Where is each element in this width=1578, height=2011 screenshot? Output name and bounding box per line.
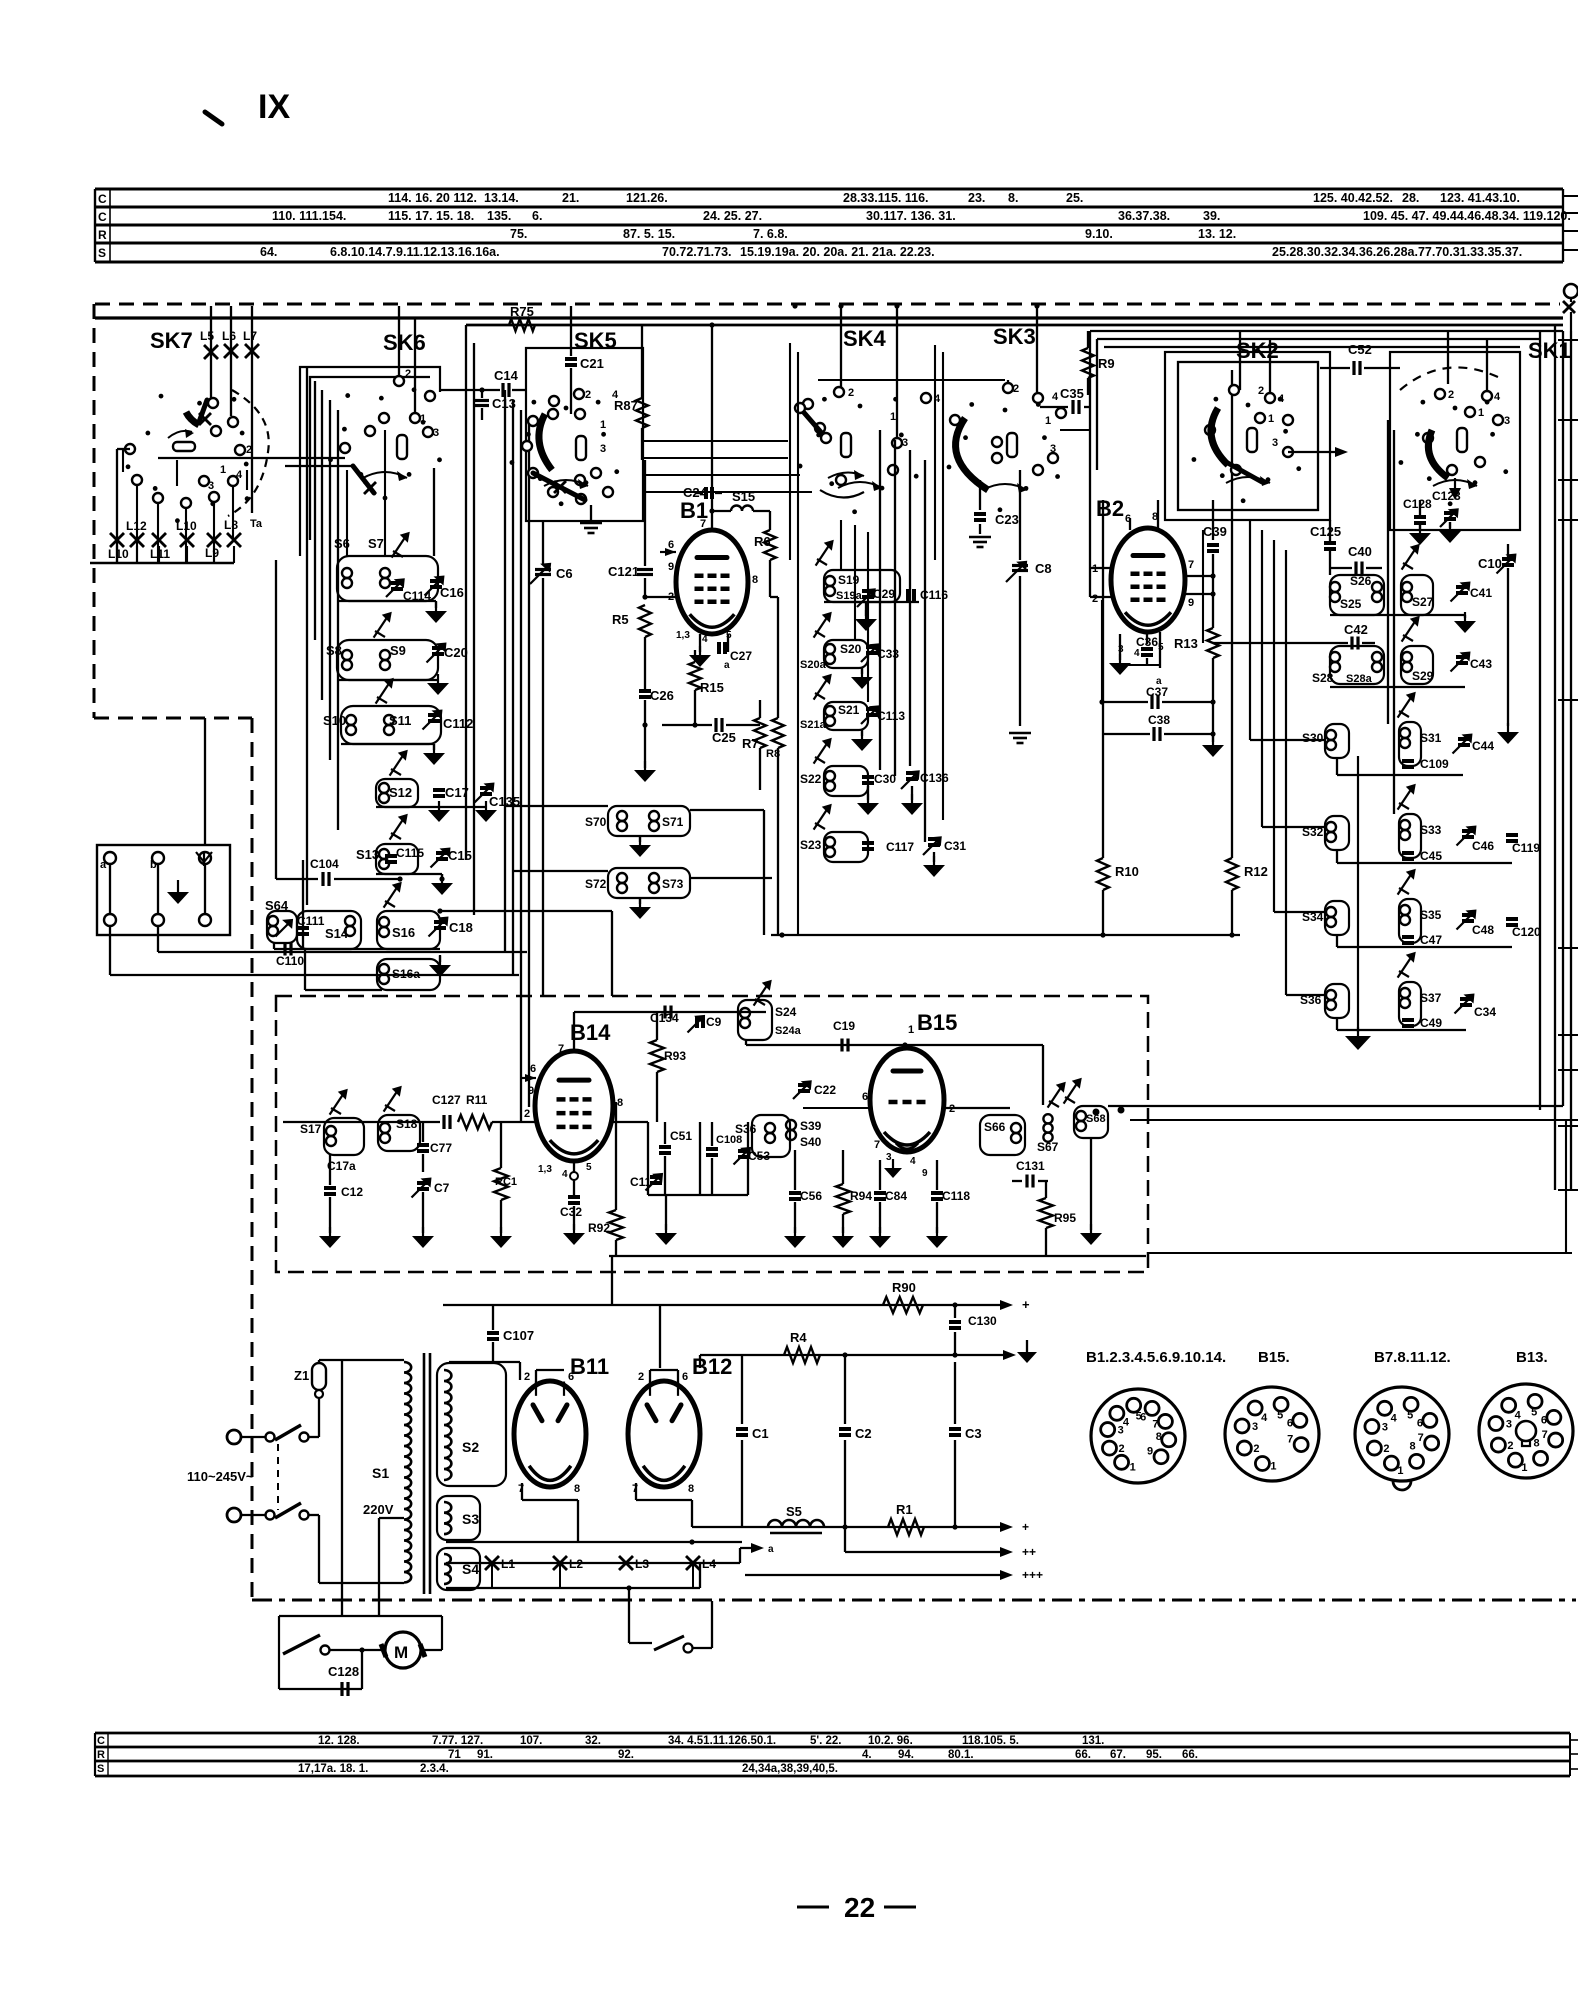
ground R94 <box>842 1227 844 1236</box>
svg-text:1: 1 <box>600 419 606 431</box>
wire SK7 to SK6 row2 <box>285 465 353 467</box>
wire B2 pin9 row <box>1185 593 1213 595</box>
svg-text:C25: C25 <box>712 730 736 745</box>
svg-text:Z1: Z1 <box>294 1368 309 1383</box>
svg-text:1: 1 <box>1268 413 1274 425</box>
svg-text:36.37.38.: 36.37.38. <box>1118 209 1170 223</box>
earth below C8 <box>1009 732 1031 735</box>
svg-text:S67: S67 <box>1037 1140 1059 1154</box>
svg-text:S73: S73 <box>662 877 684 891</box>
svg-text:110. 111.154.: 110. 111.154. <box>272 209 346 223</box>
wire S13 bottom <box>376 873 442 875</box>
svg-text:C22: C22 <box>814 1083 836 1097</box>
svg-text:B7.8.11.12.: B7.8.11.12. <box>1374 1349 1451 1366</box>
svg-text:S72: S72 <box>585 877 607 891</box>
svg-text:3: 3 <box>1252 1421 1258 1433</box>
svg-text:C130: C130 <box>968 1314 997 1328</box>
coil S67 <box>1043 1114 1052 1123</box>
wire HT bus R90 <box>612 1304 1005 1306</box>
svg-text:C128: C128 <box>328 1664 359 1679</box>
dashed enclosure jog <box>94 717 252 720</box>
coil S34 block <box>1325 901 1349 935</box>
page number <box>797 1906 829 1909</box>
earth below C23 <box>979 524 981 534</box>
svg-text:25.: 25. <box>1066 191 1083 205</box>
capacitor C119 <box>1506 833 1518 837</box>
svg-text:2: 2 <box>1258 385 1264 397</box>
capacitor C31 <box>923 838 940 855</box>
coil X symbols row <box>110 533 124 547</box>
wire S64 bottom <box>273 943 275 949</box>
switch SK7 arrow <box>168 431 192 438</box>
svg-text:7: 7 <box>1418 1432 1424 1444</box>
capacitor C20 <box>427 645 445 663</box>
coil S6 S7 block <box>337 556 438 601</box>
svg-text:1: 1 <box>220 464 226 476</box>
svg-text:1: 1 <box>1521 1462 1527 1474</box>
svg-text:B1.2.3.4.5.6.9.10.14.: B1.2.3.4.5.6.9.10.14. <box>1086 1349 1226 1366</box>
svg-text:S36: S36 <box>735 1122 757 1136</box>
adjust arrow S19 <box>816 543 831 566</box>
wire SK7 contact drops <box>136 486 138 563</box>
svg-text:123. 41.43.10.: 123. 41.43.10. <box>1440 191 1520 205</box>
mains switch arm 1 <box>275 1425 301 1440</box>
svg-text:RC1: RC1 <box>495 1176 517 1188</box>
svg-text:1: 1 <box>1045 415 1051 427</box>
svg-text:L9: L9 <box>205 546 219 560</box>
wire to S72 <box>513 870 608 872</box>
coil S35 block <box>1399 899 1421 943</box>
capacitor C44 <box>1453 736 1471 754</box>
resistor R92 <box>609 1210 623 1240</box>
coil S29 block <box>1401 646 1433 684</box>
wire SK4 top leads <box>840 306 842 388</box>
tube B15 <box>870 1048 944 1152</box>
svg-text:C115: C115 <box>396 846 424 860</box>
svg-text:9: 9 <box>922 1168 928 1179</box>
svg-text:3: 3 <box>1506 1419 1512 1431</box>
svg-text:S19a: S19a <box>836 590 863 602</box>
svg-text:C31: C31 <box>944 839 966 853</box>
svg-text:114. 16. 20 112.: 114. 16. 20 112. <box>388 191 477 205</box>
wire B15 pin1 <box>904 1045 906 1048</box>
svg-text:S9: S9 <box>390 643 406 658</box>
capacitor C107 <box>492 1305 494 1330</box>
capacitor C2 <box>844 1355 846 1424</box>
capacitor C17 <box>433 788 445 792</box>
svg-text:109. 45. 47. 49.44.46.48.34. 1: 109. 45. 47. 49.44.46.48.34. 119.120. <box>1363 209 1571 223</box>
svg-text:L10: L10 <box>176 519 197 533</box>
wire HT bus 2 <box>700 1354 1010 1356</box>
wire B14 pin7 lead <box>573 1012 575 1052</box>
switch SK7 slot <box>173 442 195 451</box>
svg-text:S1: S1 <box>372 1465 389 1481</box>
svg-text:67.: 67. <box>1110 1749 1126 1761</box>
svg-text:9: 9 <box>1147 1446 1153 1458</box>
svg-text:L4: L4 <box>702 1557 716 1571</box>
wire B2 left leads <box>1090 567 1111 569</box>
svg-text:L1: L1 <box>501 1557 515 1571</box>
svg-text:7.77. 127.: 7.77. 127. <box>432 1735 483 1747</box>
adjust arrow S12 <box>390 753 405 776</box>
svg-text:C8: C8 <box>1035 561 1052 576</box>
capacitor C32 <box>568 1195 580 1199</box>
svg-text:4: 4 <box>1494 391 1501 403</box>
svg-text:C: C <box>98 192 107 206</box>
svg-text:C52: C52 <box>1348 342 1372 357</box>
svg-text:B15: B15 <box>917 1010 957 1035</box>
svg-text:R7: R7 <box>742 736 759 751</box>
svg-text:C34: C34 <box>1474 1005 1496 1019</box>
svg-text:2: 2 <box>405 368 411 380</box>
svg-text:L5: L5 <box>200 329 214 343</box>
motor switch arm <box>283 1635 320 1654</box>
svg-text:C3: C3 <box>965 1426 982 1441</box>
svg-text:S28a: S28a <box>1346 673 1373 685</box>
wire S40 to B15 <box>803 1107 870 1109</box>
svg-text:C23: C23 <box>995 512 1019 527</box>
coil S66 block <box>980 1115 1025 1155</box>
svg-text:5: 5 <box>1277 1409 1283 1421</box>
svg-text:R13: R13 <box>1174 636 1198 651</box>
svg-text:2.3.4.: 2.3.4. <box>420 1763 449 1775</box>
svg-text:S16: S16 <box>392 925 415 940</box>
svg-text:S25: S25 <box>1340 597 1362 611</box>
wire chain feed S36 <box>1285 550 1287 995</box>
svg-text:121.26.: 121.26. <box>626 191 668 205</box>
ground S18 <box>422 1227 424 1236</box>
svg-text:S26: S26 <box>1350 574 1372 588</box>
svg-text:S22: S22 <box>800 772 822 786</box>
svg-text:C51: C51 <box>670 1129 692 1143</box>
switch SK1 frame <box>1390 352 1520 530</box>
ground S13 <box>441 874 443 880</box>
capacitor C109 <box>1402 759 1414 763</box>
ground S20 <box>861 668 863 674</box>
svg-text:6: 6 <box>1140 1411 1146 1423</box>
wire SK7 bottom bus <box>90 562 234 565</box>
svg-text:C113: C113 <box>877 709 905 723</box>
svg-text:1: 1 <box>1478 407 1484 419</box>
wire SK7 contact drops <box>122 448 124 472</box>
svg-text:C21: C21 <box>580 356 604 371</box>
coil S70 S71 block <box>608 806 690 836</box>
svg-text:L3: L3 <box>635 1557 649 1571</box>
wire right margin vertical 3 <box>1570 331 1572 1190</box>
svg-text:C40: C40 <box>1348 544 1372 559</box>
ground S25 row <box>1464 615 1466 618</box>
svg-text:L11: L11 <box>150 547 170 561</box>
svg-text:SK4: SK4 <box>843 326 887 351</box>
connector box <box>97 845 230 935</box>
switch SK6 field <box>421 420 426 425</box>
resistor R1 <box>888 1519 924 1535</box>
coil S24 block <box>738 1000 772 1040</box>
svg-text:7: 7 <box>700 518 706 530</box>
svg-text:R11: R11 <box>466 1093 488 1107</box>
svg-text:3: 3 <box>600 443 606 455</box>
svg-text:R90: R90 <box>892 1280 916 1295</box>
ground caps group <box>665 1195 667 1230</box>
wire to S70 <box>505 805 608 807</box>
adjust arrow S31 <box>1398 695 1413 718</box>
svg-text:8: 8 <box>1534 1437 1540 1449</box>
wire S4 bottom row <box>446 1587 700 1589</box>
wire SK6 drop a <box>346 470 348 556</box>
tube B14 <box>535 1051 613 1161</box>
svg-text:75.: 75. <box>510 227 527 241</box>
capacitor C16 <box>425 578 443 596</box>
wire S24 to C19 <box>745 1040 747 1045</box>
wire S16 top <box>440 910 612 912</box>
wire B11 anode taps <box>493 1361 520 1363</box>
svg-text:B15.: B15. <box>1258 1349 1290 1366</box>
svg-text:R12: R12 <box>1244 864 1268 879</box>
svg-text:8: 8 <box>574 1483 580 1495</box>
wire S34 bottom <box>1336 935 1338 947</box>
tube B2 <box>1111 528 1185 632</box>
ground S70 <box>639 836 641 842</box>
svg-text:9: 9 <box>528 1085 534 1097</box>
wire right pair verticals <box>1387 420 1389 724</box>
ground S22 b <box>911 786 913 800</box>
svg-text:C30: C30 <box>874 772 896 786</box>
svg-text:S11: S11 <box>389 713 411 728</box>
svg-text:SK3: SK3 <box>993 324 1036 349</box>
svg-text:IX: IX <box>258 88 290 126</box>
svg-text:C44: C44 <box>1472 739 1494 753</box>
svg-text:C10: C10 <box>1478 556 1502 571</box>
coil S8 S9 block <box>337 640 438 680</box>
capacitor C118 <box>931 1191 943 1195</box>
resistor R10 <box>1102 500 1104 858</box>
svg-text:3: 3 <box>886 1152 892 1163</box>
coil S21 block <box>824 702 868 730</box>
arrow LT3 <box>1000 1570 1013 1580</box>
capacitor C8 <box>1019 470 1021 560</box>
svg-text:C7: C7 <box>434 1181 450 1195</box>
svg-text:S37: S37 <box>1420 991 1442 1005</box>
svg-text:4: 4 <box>1515 1409 1522 1421</box>
wire B1 cathode <box>699 634 701 652</box>
wire B2 pin8 lead <box>1157 500 1159 528</box>
coil S16a block <box>377 959 440 990</box>
switch SK2 nested frames <box>1165 352 1330 520</box>
svg-text:+: + <box>1022 1297 1030 1312</box>
ground R13 <box>1212 734 1214 742</box>
svg-text:a: a <box>100 859 107 871</box>
svg-text:S29: S29 <box>1412 669 1434 683</box>
tube B12 <box>628 1381 700 1487</box>
svg-text:2: 2 <box>1448 389 1454 401</box>
svg-text:C56: C56 <box>800 1189 822 1203</box>
coil S36 block <box>1325 984 1349 1018</box>
capacitor C53 <box>734 1149 750 1165</box>
coil S10 S11 block <box>341 706 441 744</box>
adjust arrow S18 <box>384 1089 399 1112</box>
wire chain bus vertical <box>1357 756 1359 1032</box>
svg-text:S5: S5 <box>786 1504 802 1519</box>
capacitor C13 <box>481 390 483 398</box>
coil S14 block <box>297 911 361 949</box>
svg-text:SK2: SK2 <box>1236 338 1279 363</box>
svg-text:R1: R1 <box>896 1502 913 1517</box>
svg-text:7: 7 <box>1287 1434 1293 1446</box>
svg-text:1: 1 <box>1270 1460 1276 1472</box>
switch SK3 field <box>1042 435 1047 440</box>
svg-text:4: 4 <box>1123 1416 1130 1428</box>
svg-text:25.28.30.32.34.36.26.28a.77.70: 25.28.30.32.34.36.26.28a.77.70.31.33.35.… <box>1272 245 1522 259</box>
capacitor C46 <box>1457 828 1475 846</box>
ground S17 <box>329 1227 331 1236</box>
adjust arrow S37 <box>1398 955 1413 978</box>
motor M <box>385 1632 421 1668</box>
svg-text:C12: C12 <box>341 1185 363 1199</box>
capacitor C11 <box>646 1175 662 1191</box>
svg-text:110~245V~: 110~245V~ <box>187 1469 254 1484</box>
ground B1 cathode <box>699 646 701 655</box>
bottom table right ticks <box>1570 1739 1578 1741</box>
svg-text:C11: C11 <box>630 1175 652 1189</box>
svg-text:+++: +++ <box>1022 1568 1043 1582</box>
svg-text:L2: L2 <box>569 1557 583 1571</box>
svg-text:1: 1 <box>1130 1461 1136 1473</box>
wire SK6 drop b <box>384 430 386 556</box>
svg-text:S16a: S16a <box>392 967 420 981</box>
switch SK5 frame <box>526 348 643 521</box>
svg-text:S21: S21 <box>838 703 860 717</box>
wire S32 bottom <box>1336 850 1338 863</box>
switch SK7 dashed linkage <box>228 390 269 516</box>
ground C56 <box>794 1227 796 1236</box>
svg-text:9: 9 <box>1188 597 1194 609</box>
wire S2 top to C107 <box>449 1361 493 1363</box>
svg-text:5'. 22.: 5'. 22. <box>810 1735 842 1747</box>
wire bundle SK6-SK5 verticals <box>465 325 467 860</box>
svg-text:S7: S7 <box>368 536 384 551</box>
tube B14 grid cap arrow <box>520 1077 536 1079</box>
wire chain feed S32 <box>1261 530 1263 827</box>
svg-text:2: 2 <box>1507 1440 1513 1452</box>
arrow HT2 <box>1003 1350 1016 1360</box>
svg-text:C: C <box>97 1735 105 1747</box>
wire B1 pin2 row <box>645 596 676 598</box>
wire connector row1 <box>158 951 527 953</box>
svg-text:C20: C20 <box>444 645 468 660</box>
svg-text:C38: C38 <box>1148 713 1170 727</box>
wire IF input row <box>283 1121 440 1123</box>
svg-text:22: 22 <box>844 1892 875 1923</box>
svg-text:S20: S20 <box>840 642 862 656</box>
wire B2 pin5 <box>1159 632 1161 668</box>
svg-text:13. 12.: 13. 12. <box>1198 227 1236 241</box>
wire right margin vertical 2 <box>1554 325 1556 1190</box>
svg-text:15.19.19a. 20. 20a. 21. 21a. 2: 15.19.19a. 20. 20a. 21. 21a. 22.23. <box>740 245 935 259</box>
ground S19 <box>865 602 867 616</box>
adjust arrow S24 <box>754 983 769 1006</box>
svg-text:SK6: SK6 <box>383 330 426 355</box>
ground S8 <box>437 674 439 683</box>
svg-text:C43: C43 <box>1470 657 1492 671</box>
wire SK1 top leads <box>1447 331 1449 384</box>
svg-text:C48: C48 <box>1472 923 1494 937</box>
ground S12 b <box>485 801 487 810</box>
wire SK7 row <box>158 457 345 459</box>
wire B1 pin7 lead <box>711 325 713 530</box>
svg-text:5: 5 <box>1531 1406 1537 1418</box>
ground C84 <box>879 1227 881 1236</box>
adjust arrow S11 <box>376 681 391 704</box>
wire motor to C128 <box>361 1650 363 1689</box>
wire pilot lamp drop <box>628 1588 630 1643</box>
capacitor C33 <box>861 645 878 662</box>
switch SK1 dashed cover <box>1400 367 1500 390</box>
svg-text:a: a <box>768 1544 774 1555</box>
pilot switch <box>654 1636 684 1650</box>
adjust arrow S13 <box>390 817 405 840</box>
svg-text:S18: S18 <box>396 1117 418 1131</box>
wire S10 bottom <box>341 743 434 745</box>
svg-text:R: R <box>97 1749 105 1761</box>
wire middle verticals <box>879 430 881 770</box>
wire SK5 to SK4 link 1 <box>643 440 788 442</box>
svg-text:6.8.10.14.7.9.11.12.13.16.16a.: 6.8.10.14.7.9.11.12.13.16.16a. <box>330 245 500 259</box>
svg-text:C41: C41 <box>1470 586 1492 600</box>
wire chain feed S34 <box>1273 540 1275 912</box>
coil S31 block <box>1399 722 1421 766</box>
wire SK4 drop c <box>867 532 869 702</box>
caps parallel group frame <box>647 1122 649 1195</box>
svg-text:B14: B14 <box>570 1020 611 1045</box>
resistor R75 <box>509 319 535 331</box>
adjust arrow S7 <box>392 535 407 558</box>
svg-text:13.14.: 13.14. <box>484 191 519 205</box>
svg-text:28.: 28. <box>1402 191 1419 205</box>
capacitor C22 <box>793 1082 810 1099</box>
svg-text:S: S <box>97 1763 104 1775</box>
wire LT row <box>742 1526 1005 1528</box>
wire SK4 row <box>818 379 1005 381</box>
svg-text:6: 6 <box>1417 1417 1423 1429</box>
wire right margin vertical 1 <box>1539 331 1541 1110</box>
svg-text:B12: B12 <box>692 1354 732 1379</box>
svg-text:2: 2 <box>848 387 854 399</box>
tube B1 <box>676 530 748 634</box>
capacitor C43 <box>1451 654 1469 672</box>
svg-text:S28: S28 <box>1312 671 1334 685</box>
ground S21 <box>861 730 863 736</box>
svg-text:S23: S23 <box>800 838 822 852</box>
capacitor C21 <box>570 306 572 356</box>
wire S12 bottom <box>376 806 486 808</box>
coil S37 block <box>1399 982 1421 1026</box>
svg-text:4: 4 <box>1052 391 1059 403</box>
svg-text:8: 8 <box>752 574 758 586</box>
wire SK4 left vertical 2 <box>797 352 799 936</box>
svg-text:M: M <box>394 1643 408 1662</box>
wire AVC bus <box>771 934 1240 936</box>
svg-text:6: 6 <box>568 1371 574 1383</box>
ground S10 <box>433 744 435 750</box>
svg-text:Ta: Ta <box>250 518 263 530</box>
adjust arrow S17 <box>330 1092 345 1115</box>
capacitor C114 <box>386 580 403 597</box>
resistor R95 <box>1039 1198 1053 1228</box>
wire SK3 left vertical 2 <box>942 352 944 820</box>
motor loop bottom wire <box>279 1688 362 1690</box>
wire IF bottom bus <box>609 1255 1146 1257</box>
svg-text:C42: C42 <box>1344 622 1368 637</box>
